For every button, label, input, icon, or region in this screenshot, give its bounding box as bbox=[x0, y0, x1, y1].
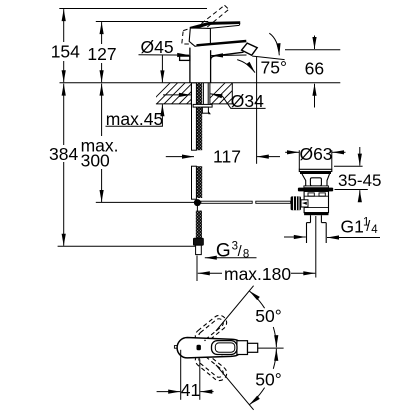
svg-text:G1: G1 bbox=[341, 217, 364, 237]
svg-text:75°: 75° bbox=[261, 58, 287, 78]
svg-text:41: 41 bbox=[181, 380, 200, 400]
svg-text:8: 8 bbox=[243, 248, 249, 260]
svg-text:4: 4 bbox=[371, 224, 378, 236]
svg-text:300: 300 bbox=[81, 151, 110, 171]
svg-text:Ø34: Ø34 bbox=[231, 91, 264, 111]
svg-text:66: 66 bbox=[305, 59, 324, 79]
svg-text:35-45: 35-45 bbox=[338, 171, 381, 190]
svg-text:Ø63: Ø63 bbox=[299, 144, 332, 164]
svg-text:G: G bbox=[216, 241, 231, 262]
svg-text:127: 127 bbox=[87, 44, 116, 64]
svg-text:max.180: max.180 bbox=[224, 264, 291, 284]
svg-text:384: 384 bbox=[49, 144, 78, 164]
svg-text:50°: 50° bbox=[255, 370, 281, 390]
svg-text:154: 154 bbox=[51, 42, 80, 62]
svg-text:117: 117 bbox=[213, 147, 241, 167]
svg-text:50°: 50° bbox=[255, 306, 281, 326]
svg-text:Ø45: Ø45 bbox=[141, 37, 174, 57]
